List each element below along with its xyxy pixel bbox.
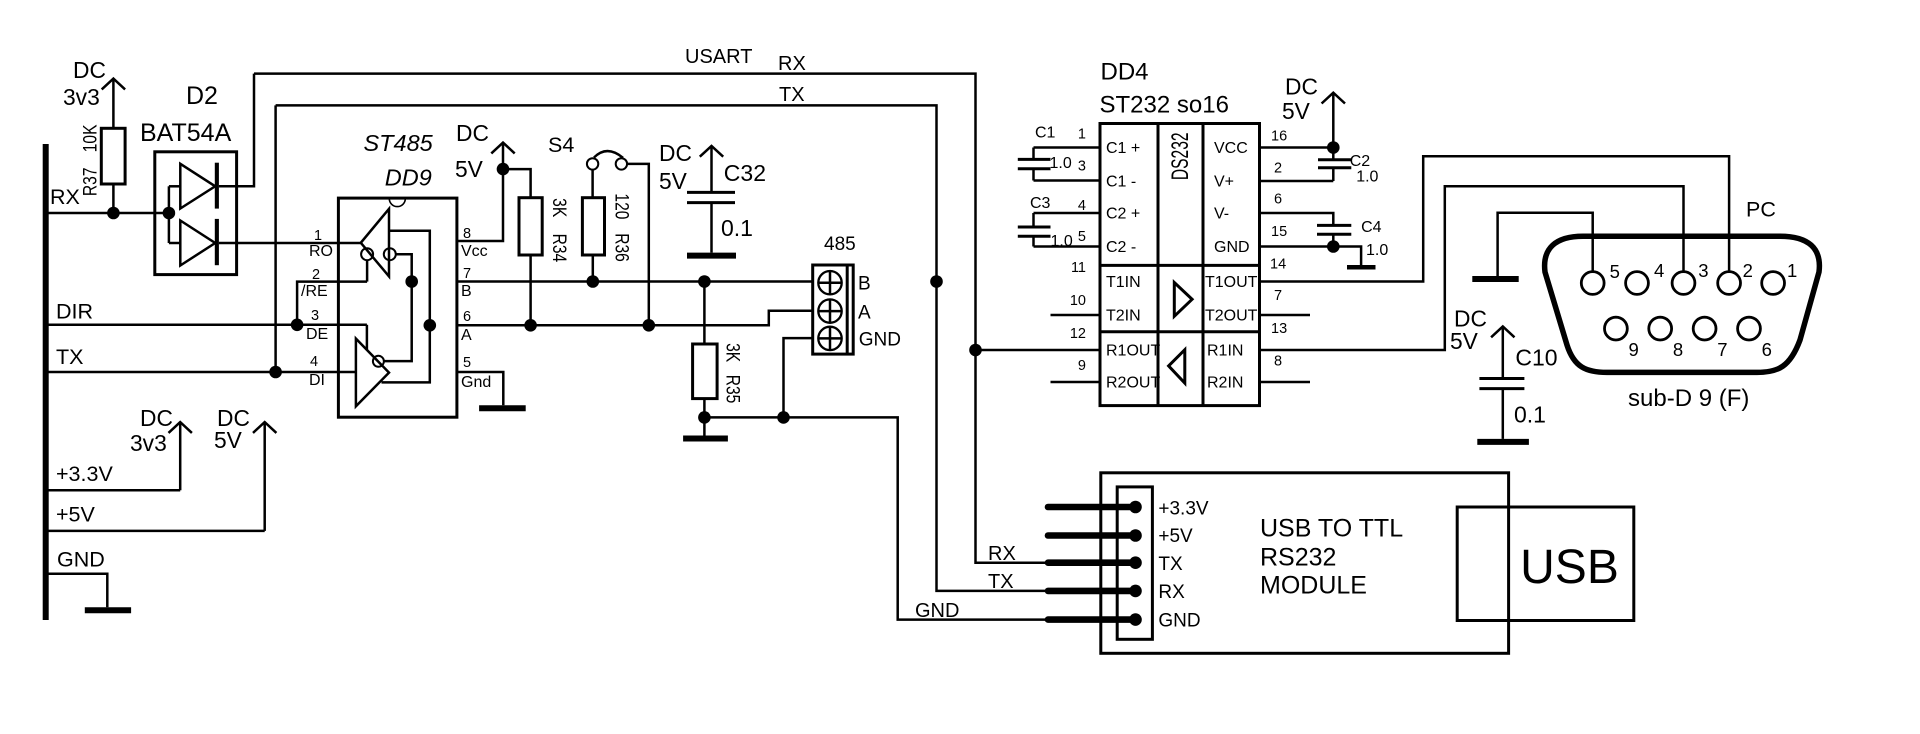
junction	[269, 366, 282, 379]
pin 6	[1738, 317, 1772, 360]
junction	[698, 411, 711, 424]
svg-text:5: 5	[1610, 261, 1620, 282]
pin 4	[1626, 260, 1665, 294]
ground	[1472, 276, 1518, 282]
svg-text:4: 4	[1654, 260, 1664, 281]
svg-text:485: 485	[824, 234, 856, 255]
ground	[1347, 265, 1376, 270]
power DC 3v3	[130, 405, 192, 490]
pin 6 A	[461, 309, 472, 344]
svg-text:3v3: 3v3	[63, 84, 100, 110]
svg-text:C1: C1	[1035, 125, 1056, 142]
svg-text:RX: RX	[988, 543, 1016, 565]
svg-text:R2IN: R2IN	[1207, 375, 1243, 392]
wire	[274, 105, 277, 372]
pin 13 R1IN	[1207, 321, 1287, 360]
svg-text:5V: 5V	[214, 427, 243, 453]
pin 7	[1693, 317, 1727, 360]
junction	[777, 411, 790, 424]
node RX	[988, 543, 1016, 565]
driver buffer	[356, 325, 389, 407]
svg-text:USART: USART	[685, 46, 752, 68]
svg-text:5: 5	[463, 355, 471, 371]
svg-text:DD9: DD9	[385, 165, 432, 191]
svg-text:0.1: 0.1	[721, 215, 753, 241]
capacitor C32	[659, 140, 766, 253]
wire R1IN-PC3	[1260, 186, 1684, 350]
svg-text:TX: TX	[56, 345, 83, 369]
pin 1	[1762, 260, 1798, 294]
svg-text:5V: 5V	[1282, 98, 1311, 124]
pin 2	[1718, 260, 1753, 294]
svg-text:1: 1	[1787, 260, 1797, 281]
svg-text:C4: C4	[1361, 219, 1382, 236]
svg-text:16: 16	[1271, 128, 1287, 144]
pin RX	[1048, 582, 1185, 603]
pin TX	[1048, 554, 1183, 575]
wire	[46, 574, 108, 607]
pin 1 C1+	[1034, 127, 1141, 157]
pin +3.3V	[1048, 498, 1209, 519]
svg-text:T2IN: T2IN	[1106, 308, 1141, 325]
junction	[587, 275, 600, 288]
pin 2 V+	[1214, 161, 1333, 191]
power DC 5V	[455, 120, 515, 182]
junction	[424, 319, 437, 332]
wire PC5-gnd	[1498, 213, 1593, 276]
wire	[703, 417, 706, 435]
wire GND-net	[704, 417, 1049, 619]
module USB-TTL	[1101, 473, 1509, 654]
svg-text:R34: R34	[548, 234, 570, 263]
pin +5V	[1048, 526, 1193, 547]
node GND	[915, 600, 959, 622]
svg-text:DIR: DIR	[56, 300, 93, 324]
svg-text:6: 6	[1274, 192, 1282, 208]
junction	[698, 275, 711, 288]
svg-text:GND: GND	[859, 329, 901, 350]
svg-text:DC: DC	[140, 405, 173, 431]
svg-text:3: 3	[1698, 260, 1708, 281]
wire	[46, 530, 265, 533]
svg-text:3v3: 3v3	[130, 430, 167, 456]
svg-text:RX: RX	[50, 185, 80, 209]
svg-text:RS232: RS232	[1260, 544, 1336, 572]
node TX	[988, 571, 1014, 593]
resistor R36	[582, 193, 633, 281]
svg-text:Gnd: Gnd	[461, 374, 491, 391]
svg-text:+5V: +5V	[56, 502, 96, 526]
svg-text:DE: DE	[306, 326, 328, 343]
svg-text:1: 1	[314, 228, 322, 244]
svg-text:10: 10	[1070, 293, 1086, 309]
svg-text:S4: S4	[548, 133, 574, 157]
svg-text:0.1: 0.1	[1514, 401, 1546, 427]
pin 14 T1OUT	[1205, 256, 1286, 291]
pin 7 T2OUT	[1205, 288, 1310, 324]
svg-text:DS232: DS232	[1168, 132, 1194, 180]
pin 3 DE	[306, 308, 328, 343]
svg-text:C2 -: C2 -	[1106, 239, 1136, 256]
svg-text:DC: DC	[73, 57, 106, 83]
svg-text:C1 -: C1 -	[1106, 174, 1136, 191]
svg-text:R1OUT: R1OUT	[1106, 343, 1160, 360]
svg-text:/RE: /RE	[301, 283, 328, 300]
power DC 5V	[1282, 73, 1345, 147]
svg-text:2: 2	[1743, 260, 1753, 281]
wire	[46, 212, 169, 215]
svg-text:C32: C32	[724, 160, 766, 186]
svg-text:12: 12	[1070, 326, 1086, 342]
svg-text:T1IN: T1IN	[1106, 274, 1141, 291]
svg-text:10K: 10K	[79, 124, 101, 152]
svg-text:8: 8	[463, 226, 471, 242]
pin 12 R1OUT	[976, 326, 1161, 360]
pin 7 B	[461, 266, 472, 300]
svg-text:1.0: 1.0	[1050, 155, 1072, 172]
svg-text:TX: TX	[779, 84, 805, 106]
svg-text:BAT54A: BAT54A	[140, 119, 232, 147]
wire	[46, 489, 181, 492]
capacitor C2	[1318, 148, 1379, 186]
svg-text:6: 6	[463, 309, 471, 325]
receiver buffer	[361, 209, 430, 383]
svg-text:T2OUT: T2OUT	[1205, 308, 1258, 325]
pin 3 C1-	[1034, 158, 1137, 190]
svg-text:2: 2	[312, 267, 320, 283]
junction	[107, 207, 120, 220]
svg-text:7: 7	[1274, 288, 1282, 304]
svg-text:A: A	[858, 303, 871, 324]
pin 8 Vcc	[461, 226, 488, 260]
svg-text:R36: R36	[611, 233, 633, 262]
switch S4	[548, 133, 649, 325]
resistor R37	[79, 124, 125, 213]
ground	[85, 607, 131, 613]
connector 485	[813, 234, 901, 354]
svg-text:GND: GND	[915, 600, 959, 622]
svg-text:+5V: +5V	[1158, 526, 1193, 547]
pin 11 T1IN	[1071, 260, 1141, 291]
svg-text:13: 13	[1271, 321, 1287, 337]
junction	[969, 344, 982, 357]
svg-text:5V: 5V	[659, 168, 688, 194]
wire DIR/DE	[46, 324, 367, 327]
net USART TX	[276, 84, 1049, 591]
svg-text:GND: GND	[1214, 239, 1250, 256]
IC U-DD9 ST485	[338, 130, 457, 417]
capacitor C10	[1450, 306, 1558, 439]
svg-text:RO: RO	[309, 243, 333, 260]
wire A	[457, 311, 813, 326]
svg-text:3K: 3K	[548, 198, 570, 217]
svg-text:+3.3V: +3.3V	[1158, 498, 1209, 519]
svg-text:1.0: 1.0	[1366, 242, 1388, 259]
junction	[643, 319, 656, 332]
svg-text:R35: R35	[722, 375, 744, 404]
pin 5	[1581, 261, 1620, 294]
wire	[784, 338, 813, 417]
svg-text:5V: 5V	[455, 156, 484, 182]
ground	[683, 436, 728, 442]
wire Gnd	[457, 372, 503, 405]
pin 4 C2+	[1034, 198, 1141, 222]
svg-text:TX: TX	[1158, 554, 1183, 575]
svg-text:DC: DC	[456, 120, 489, 146]
node +3.3V	[56, 462, 113, 486]
power DC 3v3	[63, 57, 125, 128]
pin 9	[1605, 317, 1639, 360]
svg-text:7: 7	[463, 266, 471, 282]
node RX	[50, 185, 80, 209]
bus MCU	[43, 144, 49, 620]
svg-text:V-: V-	[1214, 206, 1229, 223]
wire TX/DI	[46, 371, 356, 374]
svg-text:MODULE: MODULE	[1260, 572, 1367, 600]
svg-text:5V: 5V	[1450, 328, 1479, 354]
svg-text:RX: RX	[1158, 582, 1185, 603]
svg-text:V+: V+	[1214, 174, 1234, 191]
svg-text:C2: C2	[1350, 153, 1371, 170]
svg-text:3: 3	[311, 308, 319, 324]
svg-text:TX: TX	[988, 571, 1014, 593]
svg-text:ST485: ST485	[364, 130, 434, 156]
svg-text:A: A	[461, 327, 472, 344]
svg-text:5: 5	[1078, 229, 1086, 245]
pin 3	[1672, 260, 1708, 294]
ground	[687, 253, 736, 259]
diode D2 BAT54A	[140, 82, 237, 275]
pin 1 RO	[309, 228, 333, 260]
node +5V	[56, 502, 96, 526]
connector USB	[1457, 507, 1634, 621]
svg-text:DI: DI	[309, 372, 325, 389]
net USART RX	[254, 46, 1049, 563]
wire Vcc	[457, 143, 503, 241]
svg-text:15: 15	[1271, 224, 1287, 240]
svg-text:11: 11	[1071, 260, 1086, 276]
pin 6 V-	[1214, 192, 1333, 226]
svg-text:1.0: 1.0	[1356, 169, 1378, 186]
pin 4 DI	[309, 354, 325, 389]
node TX	[56, 345, 83, 369]
wire RO	[219, 242, 361, 245]
pin GND	[1048, 611, 1201, 632]
svg-text:GND: GND	[1158, 611, 1200, 632]
svg-text:8: 8	[1673, 339, 1683, 360]
svg-text:ST232 so16: ST232 so16	[1100, 92, 1229, 119]
capacitor C3	[1018, 195, 1073, 250]
svg-text:USB: USB	[1520, 541, 1619, 594]
svg-text:14: 14	[1270, 256, 1286, 272]
svg-text:4: 4	[1078, 198, 1086, 214]
svg-text:VCC: VCC	[1214, 140, 1248, 157]
capacitor C4	[1317, 219, 1388, 259]
svg-text:C1 +: C1 +	[1106, 140, 1140, 157]
svg-text:B: B	[461, 283, 472, 300]
svg-text:120: 120	[611, 193, 633, 219]
svg-text:C3: C3	[1030, 195, 1051, 212]
node DIR	[56, 300, 93, 324]
junction	[930, 275, 943, 288]
svg-text:9: 9	[1629, 339, 1639, 360]
svg-text:GND: GND	[57, 548, 105, 572]
svg-text:sub-D 9 (F): sub-D 9 (F)	[1628, 385, 1749, 412]
svg-text:4: 4	[310, 354, 318, 370]
ground	[479, 405, 526, 411]
pin 16 VCC	[1214, 128, 1333, 157]
resistor R35	[693, 282, 744, 418]
capacitor C1	[1018, 125, 1072, 181]
pin 2 /RE	[301, 267, 328, 300]
svg-text:R1IN: R1IN	[1207, 343, 1243, 360]
junction	[291, 319, 304, 332]
wire B	[457, 280, 813, 283]
svg-text:3: 3	[1078, 158, 1086, 174]
svg-text:R2OUT: R2OUT	[1106, 375, 1160, 392]
power DC 5V	[214, 405, 276, 531]
svg-text:+3.3V: +3.3V	[56, 462, 113, 486]
connector PC sub-D9	[1545, 198, 1820, 412]
svg-text:3K: 3K	[722, 343, 744, 362]
svg-text:2: 2	[1274, 161, 1282, 177]
junction	[1327, 141, 1340, 154]
svg-text:USB TO TTL: USB TO TTL	[1260, 515, 1403, 543]
junction	[163, 207, 176, 220]
IC DD4 ST232	[1100, 59, 1260, 406]
ground	[1477, 439, 1529, 445]
pin 8	[1649, 317, 1683, 360]
junction	[405, 275, 418, 288]
svg-text:R37: R37	[79, 167, 101, 196]
pin 15 GND	[1214, 224, 1361, 266]
svg-text:B: B	[858, 274, 871, 295]
junction	[1327, 240, 1340, 253]
svg-text:C10: C10	[1515, 344, 1557, 370]
junction	[497, 163, 510, 176]
svg-text:DC: DC	[1285, 73, 1318, 99]
svg-text:8: 8	[1274, 354, 1282, 370]
pin 5 C2-	[1034, 229, 1137, 256]
svg-text:1: 1	[1078, 127, 1086, 143]
svg-text:T1OUT: T1OUT	[1205, 274, 1258, 291]
wire /RE	[297, 282, 367, 325]
svg-text:Vcc: Vcc	[461, 243, 488, 260]
svg-text:1.0: 1.0	[1051, 233, 1073, 250]
svg-text:DC: DC	[659, 140, 692, 166]
wire	[219, 74, 254, 187]
svg-text:RX: RX	[778, 53, 806, 75]
node GND	[57, 548, 105, 572]
pin 8 R2IN	[1207, 354, 1310, 392]
svg-text:PC: PC	[1746, 198, 1776, 222]
svg-text:C2 +: C2 +	[1106, 206, 1140, 223]
svg-text:DD4: DD4	[1101, 59, 1149, 86]
pin 10 T2IN	[1051, 293, 1141, 325]
pin 5 Gnd	[461, 355, 491, 391]
junction	[524, 319, 537, 332]
resistor R34	[503, 169, 571, 325]
svg-text:6: 6	[1762, 339, 1772, 360]
wire T1OUT-PC2	[1260, 156, 1730, 281]
svg-text:9: 9	[1078, 358, 1086, 374]
svg-text:7: 7	[1717, 339, 1727, 360]
pin 9 R2OUT	[1051, 358, 1161, 392]
svg-text:D2: D2	[186, 82, 218, 110]
